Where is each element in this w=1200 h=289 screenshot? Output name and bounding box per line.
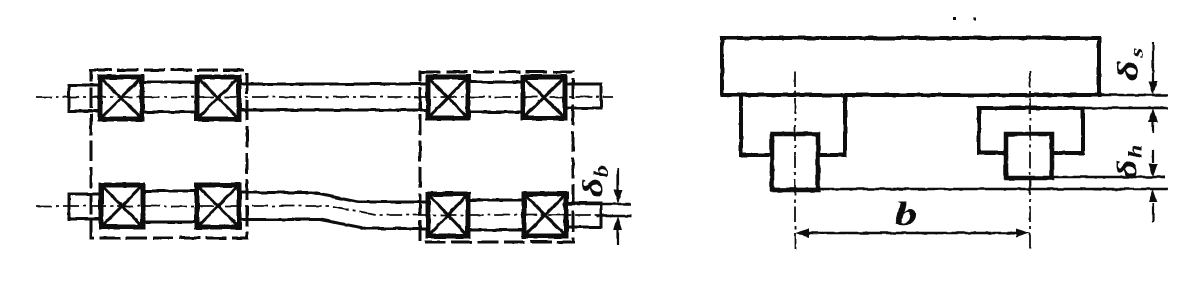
node delta-b dimension arrows xyxy=(614,168,623,245)
node dimension b line with arrows xyxy=(795,229,1030,238)
bearing B3 xyxy=(428,194,468,236)
wire right foot bottom extension line xyxy=(1052,176,1165,179)
wire top shaft left stub xyxy=(69,85,101,111)
wire floor reference line xyxy=(771,188,1168,191)
node left foot block xyxy=(772,134,818,190)
bearing B4 xyxy=(524,194,566,236)
bearing A3 xyxy=(428,77,468,118)
svg-text:δs: δs xyxy=(1112,47,1147,81)
wire top shaft middle span xyxy=(239,84,429,110)
node delta-h dimension arrows xyxy=(1149,150,1158,222)
wire bottom shaft left stub xyxy=(69,194,101,219)
wire bottom shaft segment B1-B2 xyxy=(143,191,198,222)
wire delta-b upper extension line xyxy=(563,203,631,206)
wire bottom shaft centerline (jogged) xyxy=(36,206,613,215)
node right foot block xyxy=(1006,134,1052,178)
wire right pedestal centerline xyxy=(1029,71,1031,252)
node left bearing-group dashed box xyxy=(91,70,247,238)
bearing A4 xyxy=(523,77,565,118)
wire bed bottom extension line xyxy=(1099,94,1168,97)
svg-text:b: b xyxy=(895,195,918,233)
svg-text:δb: δb xyxy=(577,165,612,197)
node scan speck 1 xyxy=(953,17,956,20)
wire top shaft right stub xyxy=(565,84,601,108)
bearing A1 xyxy=(100,77,142,119)
node machine bed xyxy=(722,38,1099,95)
node scan speck 2 xyxy=(973,17,976,20)
node right bearing-group dashed box xyxy=(420,72,573,242)
wire delta-b lower extension line xyxy=(597,215,631,218)
wire bottom shaft right stub xyxy=(566,203,601,227)
svg-text:δh: δh xyxy=(1111,145,1146,179)
bearing A2 xyxy=(197,77,239,119)
bearing B2 xyxy=(197,185,239,227)
wire left pedestal centerline xyxy=(794,71,796,250)
node left pedestal bracket xyxy=(741,95,845,155)
node delta-s dimension arrows xyxy=(1149,42,1158,133)
wire bottom shaft jogged middle span xyxy=(239,193,428,229)
wire bracket top extension line xyxy=(1083,107,1168,110)
bearing B1 xyxy=(101,185,143,227)
wire bottom shaft segment B3-B4 xyxy=(468,200,525,230)
wire top shaft segment A3-A4 xyxy=(468,82,524,112)
wire top shaft segment A1-A2 xyxy=(142,82,198,112)
node right pedestal bracket xyxy=(979,108,1083,153)
wire top shaft centerline xyxy=(36,96,613,98)
